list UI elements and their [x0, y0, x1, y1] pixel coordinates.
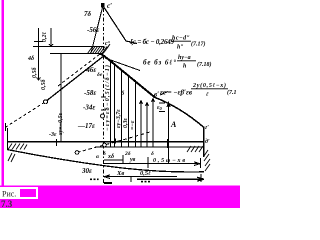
- svg-text:ε0: ε0: [157, 105, 162, 111]
- leader from point v' to formula 7.19: [160, 92, 168, 96]
- svg-text:—17ε: —17ε: [77, 122, 95, 130]
- dimension vertical x=168 with arrow: [167, 103, 170, 165]
- comb vertical x=135.5: [135, 80, 137, 147]
- dimension row B line left part: [104, 157, 148, 168]
- formula 7.19: [160, 82, 237, 98]
- svg-text:2y(0,5ℓ−x): 2y(0,5ℓ−x): [192, 82, 226, 89]
- tangent segment k to g': [155, 98, 204, 128]
- svg-text:ℓ: ℓ: [206, 92, 209, 98]
- svg-text:-46ε: -46ε: [84, 66, 96, 74]
- formula 7.17: [130, 36, 206, 51]
- tick on left dimension: [34, 40, 43, 42]
- svg-text:бе бз 6ℓ°: бе бз 6ℓ°: [143, 59, 176, 67]
- centerline tick y=97: [101, 96, 106, 98]
- svg-text:ξc = бc − 0,2649: ξc = бc − 0,2649: [130, 38, 175, 47]
- figure caption box "Рис.": [1, 188, 37, 199]
- hatched band between top horizontals: [88, 44, 111, 54]
- left support hatching: [8, 144, 27, 163]
- e0 bracket ticks: [159, 103, 165, 112]
- right support hatching: [187, 146, 210, 171]
- svg-text:=−ε: =−ε: [130, 120, 136, 130]
- svg-text:-34ε: -34ε: [83, 104, 95, 112]
- svg-text:c′: c′: [107, 2, 112, 10]
- svg-text:0,5δ: 0,5δ: [32, 67, 38, 78]
- svg-text:-58ε: -58ε: [84, 89, 96, 97]
- svg-text:εy−3,7ε: εy−3,7ε: [116, 109, 122, 128]
- svg-text:hy−a: hy−a: [178, 55, 191, 61]
- tick at x=115 beam: [115, 139, 117, 144]
- dimension row D line with right arrow: [137, 177, 204, 181]
- svg-text:h″: h″: [177, 45, 184, 51]
- svg-text:0,2ℓ: 0,2ℓ: [42, 32, 48, 43]
- bottom distribution curve: [7, 150, 204, 172]
- svg-text:(7.18): (7.18): [197, 61, 212, 68]
- centerline (dash-dot vertical): [103, 8, 105, 183]
- circle node on dashed curve: [44, 100, 48, 104]
- svg-text:7δ: 7δ: [84, 10, 92, 18]
- top horizontal line lower: [49, 28, 103, 54]
- svg-text:ув: ув: [129, 157, 136, 163]
- svg-text:c°: c°: [105, 40, 111, 47]
- centerline small circle node: [101, 114, 105, 118]
- leader line apex to formula 7.17: [104, 7, 137, 44]
- svg-text:-3ε: -3ε: [49, 132, 57, 138]
- svg-text:εc = −εβ′εв: εc = −εβ′εв: [160, 89, 192, 97]
- curve from node to peak: [58, 54, 100, 86]
- svg-text:4δ: 4δ: [27, 56, 34, 62]
- svg-text:Хв: Хв: [116, 170, 124, 177]
- main curve right branch (thick): [100, 54, 155, 98]
- left apex line: [91, 7, 103, 53]
- svg-text:в′: в′: [154, 91, 159, 99]
- dashed lower-left curve: [5, 102, 45, 128]
- svg-text:(7.1: (7.1: [227, 89, 237, 96]
- svg-text:Рис.: Рис.: [2, 190, 16, 199]
- left dimension vertical at x=38: [37, 28, 41, 80]
- beam bottom line: [95, 146, 204, 148]
- node circle left: [75, 151, 79, 155]
- node circle mid: [103, 143, 107, 147]
- svg-text:hс−d″: hс−d″: [172, 36, 190, 42]
- svg-text:0,3ε: 0,3ε: [123, 118, 129, 129]
- rotated labels: [32, 32, 136, 136]
- magenta bottom band: [0, 186, 240, 209]
- dimension row B line right with arrow: [148, 162, 200, 166]
- svg-text:−εy=εδ−0,5(ℓ/δ−1): −εy=εδ−0,5(ℓ/δ−1): [104, 65, 111, 131]
- comb vertical x=147 with arrow top: [146, 103, 149, 147]
- main curve left branch (solid line peak to lower-left): [45, 57, 103, 103]
- comb vertical pair x=110.5: [110, 61, 112, 147]
- row D ticks: [131, 174, 201, 182]
- dimension row C line: [104, 176, 177, 178]
- curve left end tick: [5, 123, 7, 131]
- svg-text:δе: δе: [97, 72, 103, 78]
- svg-text:0,5ω−xв: 0,5ω−xв: [153, 158, 185, 164]
- rising dashed line with nodes: [77, 132, 150, 153]
- thin diverging line under peak: [105, 58, 140, 71]
- svg-text:д′: д′: [205, 138, 210, 145]
- top horizontal line upper: [33, 46, 103, 48]
- svg-text:30ε: 30ε: [81, 167, 92, 175]
- tick at x=167 beam: [167, 139, 169, 148]
- comb vertical x=141 with arrow top: [140, 101, 143, 147]
- svg-text:0,5δ: 0,5δ: [41, 79, 47, 90]
- svg-text:-56ε: -56ε: [87, 26, 99, 34]
- svg-text:7.3: 7.3: [1, 199, 13, 208]
- svg-text:xδ: xδ: [107, 154, 114, 160]
- left vertical line x=61: [60, 54, 62, 142]
- magenta left mask stripe: [2, 0, 5, 186]
- centerline foot mark: [104, 182, 112, 184]
- svg-text:0,5ℓ: 0,5ℓ: [140, 170, 151, 177]
- dots row right: [141, 181, 150, 183]
- comb vertical pair x=114.5: [114, 64, 116, 147]
- svg-text:(7.17): (7.17): [191, 41, 206, 48]
- comb vertical x=128.5: [128, 75, 130, 147]
- svg-text:δ: δ: [103, 151, 106, 157]
- centerline tick y=110: [101, 109, 106, 111]
- apex marker c': [101, 3, 105, 8]
- beam top line: [7, 141, 204, 143]
- right edge vertical: [203, 127, 205, 157]
- row C left arrow: [104, 175, 110, 179]
- svg-text:δ: δ: [151, 151, 154, 157]
- formula 7.18: [143, 55, 212, 70]
- svg-text:εy=−0,5ε: εy=−0,5ε: [58, 112, 64, 135]
- small tick near -3e label: [56, 139, 58, 146]
- dots row left: [90, 179, 99, 181]
- comb vertical x=153 with arrow top: [152, 99, 155, 147]
- row B right tick: [200, 158, 202, 168]
- svg-text:г′: г′: [205, 125, 209, 131]
- left end vertical x=7: [7, 128, 9, 150]
- dimension row A line: [104, 155, 123, 164]
- svg-text:А: А: [170, 120, 177, 129]
- comb vertical x=121.5: [121, 70, 123, 147]
